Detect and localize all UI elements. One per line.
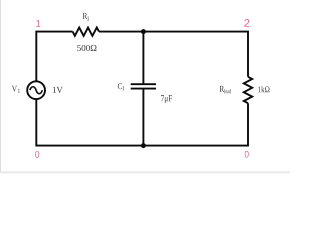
label C1 xyxy=(118,83,125,90)
wire R1 to node2 corner and right riser xyxy=(99,32,248,77)
left panel edge line xyxy=(0,0,2,172)
voltage source V1 circle xyxy=(27,81,45,99)
capacitor C1 top plate xyxy=(131,83,156,85)
node 2 xyxy=(244,19,249,27)
node 0 bottom-left xyxy=(35,151,39,158)
wire Rload to bottom rail and back to source xyxy=(36,100,248,146)
value 1V xyxy=(53,87,63,93)
bottom panel edge line xyxy=(0,172,290,174)
node 0 bottom-right xyxy=(245,151,249,158)
label Rload xyxy=(220,86,232,93)
wire capacitor branch upper xyxy=(142,32,144,84)
label R1 xyxy=(83,13,89,21)
capacitor C1 bottom plate xyxy=(131,88,156,90)
node 1 xyxy=(36,20,40,27)
value 1k ohm xyxy=(258,86,269,92)
wire node1 corner: left riser and top run to R1 xyxy=(36,32,72,81)
wire capacitor branch lower xyxy=(142,89,144,145)
value 7uF xyxy=(161,95,172,103)
resistor R1 zigzag xyxy=(73,28,99,36)
junction dot at capacitor bottom tap xyxy=(141,143,146,148)
label V1 xyxy=(12,86,20,93)
voltage source V1 sine wave xyxy=(30,87,42,94)
value 500 ohm xyxy=(77,45,96,51)
resistor Rload zigzag xyxy=(244,77,252,103)
junction dot at capacitor top tap xyxy=(141,29,146,34)
